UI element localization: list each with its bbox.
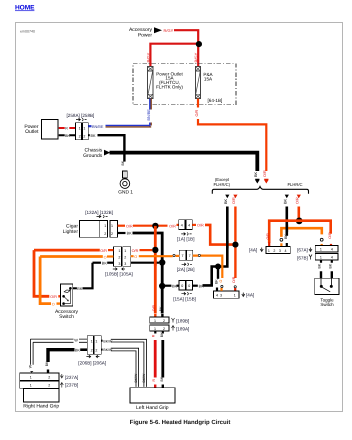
svg-text:BK: BK <box>159 306 163 311</box>
svg-text:1: 1 <box>154 319 156 323</box>
svg-text:BK: BK <box>318 263 322 268</box>
svg-text:O/R: O/R <box>197 224 204 228</box>
svg-text:O/R: O/R <box>169 224 176 228</box>
svg-text:BK/W: BK/W <box>103 339 113 343</box>
svg-text:[67A]: [67A] <box>297 247 308 252</box>
svg-text:R: R <box>152 379 156 382</box>
svg-text:BK/W: BK/W <box>103 348 113 352</box>
svg-text:O/R: O/R <box>100 249 107 253</box>
svg-text:O/R: O/R <box>263 170 267 177</box>
svg-text:Grounds: Grounds <box>83 153 103 159</box>
svg-text:2: 2 <box>91 348 93 352</box>
svg-text:1: 1 <box>320 256 322 260</box>
svg-text:1: 1 <box>104 224 106 228</box>
svg-text:BK: BK <box>102 261 108 265</box>
svg-text:1: 1 <box>30 384 32 388</box>
svg-text:2: 2 <box>163 327 165 331</box>
svg-text:BK: BK <box>77 287 83 291</box>
svg-text:O/R: O/R <box>152 305 156 312</box>
svg-text:1: 1 <box>95 339 97 343</box>
svg-text:1: 1 <box>91 339 93 343</box>
svg-text:BK: BK <box>254 171 258 177</box>
svg-text:2: 2 <box>163 319 165 323</box>
svg-text:1: 1 <box>118 249 120 253</box>
svg-text:2: 2 <box>48 384 50 388</box>
svg-text:BK: BK <box>284 234 288 239</box>
svg-text:O/R: O/R <box>132 249 139 253</box>
svg-text:[189B]: [189B] <box>176 318 189 323</box>
svg-text:2: 2 <box>118 255 120 259</box>
svg-text:em00740: em00740 <box>20 30 35 34</box>
svg-text:1: 1 <box>320 248 322 252</box>
svg-text:R/GY: R/GY <box>164 28 174 33</box>
svg-text:1: 1 <box>124 249 126 253</box>
svg-text:0: 0 <box>181 284 183 288</box>
svg-text:Figure 5-6. Heated Handgrip Ci: Figure 5-6. Heated Handgrip Circuit <box>130 419 231 426</box>
svg-text:4: 4 <box>331 256 333 260</box>
svg-text:BK: BK <box>160 376 164 381</box>
svg-text:BK: BK <box>215 279 219 284</box>
svg-text:[2A] [2B]: [2A] [2B] <box>177 267 195 272</box>
svg-text:O: O <box>219 280 223 283</box>
svg-text:1: 1 <box>30 376 32 380</box>
svg-text:3: 3 <box>279 249 281 253</box>
svg-text:O/R: O/R <box>328 232 332 239</box>
svg-text:O/R: O/R <box>50 295 57 299</box>
svg-text:BK: BK <box>121 160 125 165</box>
svg-text:O: O <box>52 302 55 306</box>
svg-text:R/GY: R/GY <box>146 52 151 62</box>
svg-text:1: 1 <box>83 126 85 130</box>
svg-text:O/R: O/R <box>232 276 236 283</box>
svg-text:[237B]: [237B] <box>65 383 78 388</box>
svg-text:FLHR/C): FLHR/C) <box>214 182 231 187</box>
svg-text:R: R <box>152 334 156 337</box>
svg-text:1: 1 <box>154 327 156 331</box>
svg-text:2: 2 <box>273 249 275 253</box>
svg-text:FLHR/C: FLHR/C <box>287 182 302 187</box>
svg-text:1: 1 <box>79 126 81 130</box>
svg-text:O/R: O/R <box>232 197 236 204</box>
svg-text:Lighter: Lighter <box>63 229 79 235</box>
svg-text:2: 2 <box>79 134 81 138</box>
svg-text:BK: BK <box>45 361 49 366</box>
svg-text:2: 2 <box>124 255 126 259</box>
svg-text:O: O <box>104 255 107 259</box>
svg-text:BK: BK <box>65 134 70 138</box>
svg-text:1: 1 <box>111 224 113 228</box>
svg-text:7: 7 <box>182 254 184 258</box>
svg-text:BK: BK <box>127 232 133 236</box>
svg-text:2: 2 <box>83 134 85 138</box>
svg-text:15A: 15A <box>204 76 213 81</box>
svg-text:[105B] [105A]: [105B] [105A] <box>105 271 133 276</box>
svg-text:Switch: Switch <box>320 302 334 307</box>
svg-text:[15A] [15B]: [15A] [15B] <box>173 296 196 301</box>
svg-text:O/R: O/R <box>195 109 199 116</box>
svg-text:BK: BK <box>75 349 81 353</box>
svg-text:2: 2 <box>111 232 113 236</box>
svg-text:Left Hand Grip: Left Hand Grip <box>136 405 169 411</box>
svg-text:4: 4 <box>285 249 287 253</box>
svg-text:[4A]: [4A] <box>249 248 257 253</box>
svg-text:3: 3 <box>118 262 120 266</box>
svg-text:4: 4 <box>188 224 190 228</box>
svg-text:[206B] [206A]: [206B] [206A] <box>78 360 106 365</box>
svg-text:4: 4 <box>181 224 183 228</box>
svg-text:[1A] [1B]: [1A] [1B] <box>177 236 195 241</box>
svg-text:FLHTK Only): FLHTK Only) <box>156 84 183 89</box>
svg-text:[67B]: [67B] <box>297 255 308 260</box>
svg-text:BK: BK <box>283 198 287 204</box>
svg-text:BN/BE: BN/BE <box>92 125 104 129</box>
svg-text:3: 3 <box>220 294 222 298</box>
svg-text:O/R: O/R <box>126 224 133 228</box>
svg-text:[4A]: [4A] <box>246 293 254 298</box>
svg-text:Outlet: Outlet <box>25 129 39 135</box>
svg-text:[64-1B]: [64-1B] <box>208 98 223 103</box>
svg-text:BK: BK <box>199 284 205 288</box>
svg-text:O/R: O/R <box>266 233 270 240</box>
svg-text:2: 2 <box>48 376 50 380</box>
svg-text:HOME: HOME <box>15 4 35 11</box>
svg-text:[132A] [132B]: [132A] [132B] <box>85 210 113 215</box>
svg-text:4: 4 <box>216 294 218 298</box>
svg-text:Power: Power <box>138 33 153 39</box>
svg-text:W: W <box>74 339 78 343</box>
svg-text:BK/W: BK/W <box>134 373 138 382</box>
svg-text:2: 2 <box>95 348 97 352</box>
svg-text:BK: BK <box>224 198 228 204</box>
svg-text:O: O <box>134 255 137 259</box>
svg-text:1: 1 <box>234 294 236 298</box>
svg-text:R: R <box>65 127 68 131</box>
svg-text:R/GY: R/GY <box>194 52 199 62</box>
svg-text:2: 2 <box>104 232 106 236</box>
svg-text:GND 1: GND 1 <box>118 189 133 195</box>
svg-text:Switch: Switch <box>59 314 74 320</box>
svg-text:1: 1 <box>268 249 270 253</box>
svg-text:BN/BE: BN/BE <box>147 109 151 121</box>
svg-text:0: 0 <box>188 284 190 288</box>
svg-text:3: 3 <box>124 262 126 266</box>
svg-text:W: W <box>29 364 33 368</box>
svg-text:7: 7 <box>189 254 191 258</box>
svg-text:O/R: O/R <box>295 197 299 204</box>
svg-text:Right Hand Grip: Right Hand Grip <box>23 404 59 410</box>
svg-text:[258A] [258B]: [258A] [258B] <box>67 113 95 118</box>
svg-text:[237A]: [237A] <box>65 375 78 380</box>
svg-text:BK/W: BK/W <box>142 373 146 382</box>
svg-text:BK: BK <box>91 134 97 138</box>
svg-text:[189A]: [189A] <box>176 326 189 331</box>
svg-text:BK: BK <box>328 263 332 268</box>
svg-text:4: 4 <box>331 248 333 252</box>
